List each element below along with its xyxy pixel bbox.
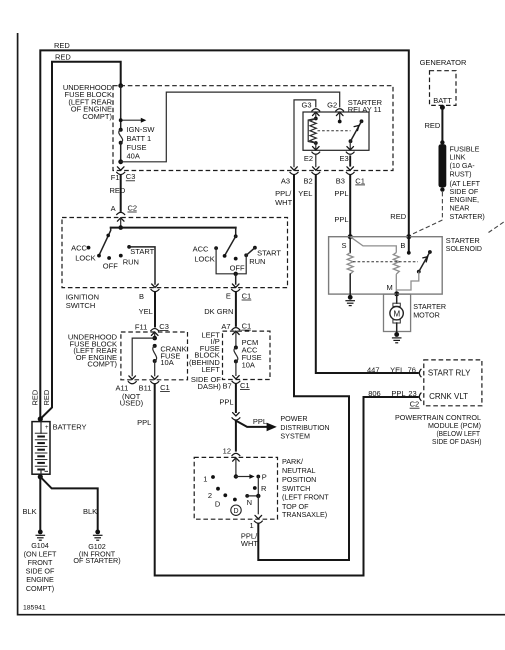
wire BLK battery to G102 [40,477,97,530]
connector B2 (fuse block bottom) [298,167,320,198]
connector E C1 (ignition bottom) [226,284,251,301]
node crank fuse feed junction [152,336,157,341]
wire fuse block internal feed [120,86,122,130]
svg-text:D: D [215,499,221,508]
svg-text:PARK/: PARK/ [282,457,303,466]
svg-text:START: START [130,247,154,256]
connector A3 (fuse block bottom) [275,167,298,207]
wire YEL ignition B to crank fuse [139,293,155,327]
battery [32,422,87,475]
in-line connector on PPL [232,413,241,420]
svg-text:+: + [45,425,49,431]
svg-text:RED: RED [31,389,40,405]
svg-text:C2: C2 [128,203,138,212]
svg-text:B: B [139,292,144,301]
svg-text:B: B [400,241,405,250]
svg-text:WHT: WHT [241,539,258,548]
svg-text:(LEFT FRONT: (LEFT FRONT [282,493,329,502]
dashed leader fusible link to solenoid B node [412,192,443,235]
generator [420,58,467,105]
node solenoid M terminal [394,291,399,296]
svg-text:B11: B11 [139,384,152,393]
svg-text:76: 76 [408,365,416,374]
wire fuse output [120,143,122,162]
wire crank fuse output [154,361,156,376]
svg-text:PPL: PPL [391,389,405,398]
park/neutral wiper to P contact [234,474,255,479]
svg-text:B7: B7 [223,381,232,390]
svg-text:806: 806 [368,389,381,398]
svg-text:DK GRN: DK GRN [204,307,233,316]
ground (starter motor) [392,332,402,343]
svg-text:STARTER): STARTER) [450,212,485,221]
svg-text:COMPT): COMPT) [87,360,117,369]
svg-text:COMPT): COMPT) [26,584,54,593]
svg-text:RED: RED [110,186,126,195]
svg-text:RELAY 11: RELAY 11 [348,105,382,114]
wire PCM ACC fuse output [235,361,237,375]
park/neutral position contacts [203,473,267,509]
connector A11 (not used) [116,376,144,408]
connector 1 (park/neutral output) [241,515,263,548]
svg-text:ENGINE: ENGINE [26,575,54,584]
svg-text:447: 447 [367,365,380,374]
svg-text:BATT 1: BATT 1 [127,134,152,143]
svg-text:N: N [247,498,252,507]
svg-text:E2: E2 [304,154,313,163]
PCM connector hooks [419,369,421,401]
fuse PCM ACC FUSE 10A [234,338,262,370]
connector B11 C1 [139,376,170,393]
solenoid pull-in coil (S to M) [350,237,399,294]
svg-text:M: M [387,283,393,292]
node fuse output junction [118,159,123,164]
svg-text:E3: E3 [340,154,349,163]
powertrain control module box [395,360,482,446]
wire battery second RED feed to underhood fuse block [41,53,121,419]
solenoid B contact [407,237,411,255]
wire relay G2 feed [121,92,340,162]
svg-text:BLK: BLK [83,507,97,516]
wire ignition feed bus [111,227,236,229]
ground G102 [73,530,120,565]
connector G2 (relay) [327,101,344,122]
ground G104 [24,530,57,593]
connector E2 (relay output to B2) [304,143,320,167]
svg-text:START RLY: START RLY [428,369,471,378]
underhood fuse block (crank fuse) [68,332,188,380]
svg-text:DASH): DASH) [198,382,222,391]
svg-text:POWER: POWER [280,414,307,423]
svg-text:RUST): RUST) [450,170,472,179]
node fuse block feed junction [118,83,123,88]
connector F11 C3 (crank fuse block top) [135,322,169,338]
svg-text:SYSTEM: SYSTEM [280,432,310,441]
svg-text:1: 1 [250,521,254,530]
svg-text:FUSE: FUSE [127,143,147,152]
svg-text:CRNK VLT: CRNK VLT [429,392,468,401]
svg-text:40A: 40A [127,152,140,161]
node solenoid S terminal [348,234,353,239]
svg-text:RED: RED [390,212,406,221]
svg-text:A: A [111,204,116,213]
wire P to N output bus [247,477,260,514]
connector B3 C1 (fuse block bottom) [334,167,365,224]
connector 12 (park/neutral position switch) [223,446,241,476]
svg-text:PPL: PPL [334,215,348,224]
connector A7 C1 (IP fuse block top) [221,322,251,348]
svg-text:B2: B2 [304,176,313,185]
svg-text:DISTRIBUTION: DISTRIBUTION [280,423,329,432]
dashed leader from STARTER) text [489,222,505,233]
svg-text:RED: RED [425,121,441,130]
starter motor [384,294,447,333]
wire YEL B2 to PCM START RLY (circuit 447) [316,175,418,374]
wire branch arrow to other circuits [119,118,147,123]
svg-text:G2: G2 [327,101,337,110]
svg-text:B3: B3 [336,176,345,185]
svg-text:YEL: YEL [390,365,404,374]
svg-text:ACC: ACC [71,244,87,253]
fusible link [439,140,485,221]
svg-text:POSITION: POSITION [282,475,316,484]
svg-text:OFF: OFF [103,261,118,270]
svg-text:C3: C3 [126,172,136,181]
svg-text:PPL/: PPL/ [275,189,292,198]
svg-text:2: 2 [208,491,212,500]
connector B7 C1 [223,376,250,391]
circled D (overdrive) indicator [231,505,241,515]
relay switch contacts and arm [338,119,364,143]
svg-text:10A: 10A [160,358,173,367]
wire A11 branch (not used) [132,338,155,376]
svg-text:185941: 185941 [23,605,46,612]
wire RED between C3 and C2 [110,175,126,211]
starter solenoid box [329,236,483,294]
park/neutral position switch box [194,457,329,519]
svg-text:D: D [234,508,239,515]
fuse CRANK FUSE 10A [153,344,187,367]
left IP fuse block [189,330,270,391]
svg-text:SWITCH: SWITCH [66,301,96,310]
svg-text:SOLENOID: SOLENOID [446,244,483,253]
svg-text:SWITCH: SWITCH [282,484,310,493]
svg-text:RED: RED [54,41,70,50]
wire PPL/WHT park/neutral to relay A3 [258,175,349,560]
svg-text:M: M [394,309,401,318]
solenoid actuator dashed link [353,261,418,263]
node battery negative junction [38,474,43,479]
svg-text:G3: G3 [301,101,311,110]
fuse IGN-SW BATT 1 FUSE 40A [119,125,156,160]
svg-text:OFF: OFF [230,263,245,272]
ignition switch section 2 (accessory contacts) [193,228,282,276]
svg-text:10A: 10A [242,361,255,370]
svg-text:(ON LEFT: (ON LEFT [24,549,57,558]
connector G3 (relay) [301,101,320,119]
svg-text:IGN-SW: IGN-SW [127,125,156,134]
ignition switch section 1 (start contacts) [71,228,155,271]
svg-text:PPL: PPL [137,418,151,427]
wire ignition ACC output to terminal E [235,274,237,284]
svg-text:BATT: BATT [433,96,452,105]
wire PPL to park/neutral switch [235,421,237,451]
svg-text:TRANSAXLE): TRANSAXLE) [282,510,327,519]
connector B (ignition bottom) [139,284,159,301]
svg-text:NEUTRAL: NEUTRAL [282,466,316,475]
svg-text:A3: A3 [281,176,290,185]
svg-text:RED: RED [55,53,71,62]
connector C3 (fuse block bottom, F1) [111,167,136,182]
svg-text:PPL: PPL [253,417,267,426]
svg-text:C3: C3 [159,322,169,331]
svg-text:C1: C1 [160,383,170,392]
svg-text:RUN: RUN [249,257,265,266]
svg-text:23: 23 [408,389,416,398]
node ignition feed junction [118,225,123,230]
wire PPL B7 down [219,385,236,413]
svg-text:USED): USED) [120,399,144,408]
wire DK GRN ignition E to PCM ACC fuse [204,293,236,326]
connector E3 (relay output to B3) [340,141,355,166]
svg-text:PPL: PPL [334,189,348,198]
svg-text:MOTOR: MOTOR [413,310,440,319]
wire battery positive RED feed (top loop to solenoid B) [40,41,409,419]
ignition switch box [62,218,288,311]
svg-text:BATTERY: BATTERY [53,422,87,431]
svg-text:F1: F1 [111,173,120,182]
svg-text:F11: F11 [135,323,147,332]
svg-text:COMPT): COMPT) [82,112,112,121]
wire PPL B11 to PCM CRNK VLT (circuit 806) [137,385,418,576]
svg-text:SIDE OF DASH): SIDE OF DASH) [432,437,482,446]
node generator BATT terminal [440,105,445,110]
svg-text:LEFT: LEFT [201,365,220,374]
node battery positive junction [38,416,43,421]
relay U: STARTER RELAY 11 [303,98,383,150]
svg-text:A7: A7 [221,322,230,331]
svg-text:C2: C2 [410,400,420,409]
svg-text:R: R [261,484,267,493]
svg-text:C1: C1 [242,291,252,300]
underhood fuse block (top) [63,83,393,171]
wire BLK battery to G104 [23,477,41,530]
wire RED generator to fusible link [425,107,443,142]
svg-text:E: E [226,292,231,301]
svg-text:RED: RED [42,389,51,405]
svg-text:C1: C1 [355,176,365,185]
svg-text:LOCK: LOCK [75,253,95,262]
wire ignition START output to terminal B [129,247,155,284]
relay coil [308,117,317,145]
svg-text:YEL: YEL [139,307,153,316]
wire PPL B3 to solenoid S [349,175,351,235]
svg-text:RUN: RUN [123,257,139,266]
ground (solenoid) [345,295,355,306]
svg-text:12: 12 [223,446,231,455]
wire relay G3 to connector A3 [294,100,316,167]
svg-text:P: P [262,473,267,482]
svg-text:GENERATOR: GENERATOR [420,58,467,67]
svg-text:S: S [342,241,347,250]
svg-text:WHT: WHT [275,198,292,207]
svg-text:BLK: BLK [23,507,37,516]
solenoid hold-in coil (S to ground) [347,237,353,296]
connector C2 (ignition switch, terminal A) [111,203,137,227]
wire branch to power distribution [236,414,330,441]
svg-text:C1: C1 [242,322,252,331]
solenoid switch arm and contacts [397,250,432,290]
relay actuator dashed link [318,130,351,132]
svg-text:START: START [257,249,281,258]
svg-text:C1: C1 [240,381,250,390]
node solenoid B terminal [406,234,411,239]
svg-text:LOCK: LOCK [194,255,214,264]
svg-text:OF STARTER): OF STARTER) [73,556,120,565]
svg-text:ACC: ACC [193,244,209,253]
svg-text:PPL: PPL [219,397,233,406]
svg-text:YEL: YEL [298,189,312,198]
svg-text:1: 1 [203,474,207,483]
